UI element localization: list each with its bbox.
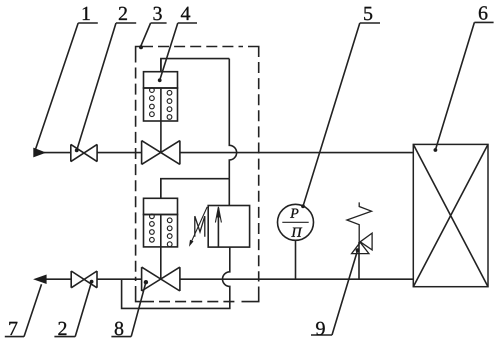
heat exchanger box (label 6) with X (413, 144, 488, 286)
node: outlet arrow (flow out) (33, 275, 47, 285)
solenoid S1 circles left column (150, 88, 155, 117)
valve V4 (label 8, bottom big): bowtie (142, 267, 180, 291)
wire: bottom main line valve2b to big valve 8 (97, 278, 142, 280)
wire: link from S2 top to control riser (T junction) (161, 179, 230, 199)
pressure gauge (label 5): circle (278, 204, 314, 240)
dashed enclosure box (label 3) (136, 47, 259, 302)
leader line label 6 with dot (435, 22, 493, 150)
label 2 (top) (119, 7, 127, 20)
label 2 (bottom) (58, 322, 66, 335)
label 7 (9, 322, 17, 335)
wire: link from S1 top to control riser (161, 59, 229, 72)
wire: top main line big valve to heat-exchanger box (180, 152, 413, 154)
regulator internal arrow (217, 208, 219, 247)
regulator adjustable spring (M zigzag) (195, 216, 205, 237)
regulator spring arrow (diagonal) (191, 207, 208, 243)
safety valve triangles (360, 233, 372, 250)
wire: top main line from inlet arrow to valve 2 (44, 152, 71, 154)
leader line label 5 with dot (303, 23, 380, 206)
valve V2 (label 2 bottom): bowtie (71, 271, 97, 288)
safety valve (label 9): spring zigzag (347, 202, 372, 242)
leader line label 7 (5, 284, 42, 336)
label 5 (364, 7, 372, 20)
wire: regulator drain with hop over bottom main line, loop back (122, 247, 230, 308)
label 3 (154, 7, 162, 20)
leader line label 2 (bottom) with dot (54, 282, 91, 337)
valve V3 (top big, inside dashed box): bowtie (142, 141, 180, 165)
wire: control riser upper segment with hop over top main line (229, 59, 236, 179)
gauge stem (295, 240, 297, 279)
leader line label 4 with dot (160, 23, 197, 80)
solenoid S1 body (144, 88, 178, 121)
wire: bottom main line big valve 8 to heat-exchanger box (180, 278, 413, 280)
leader line label 1 (36, 23, 98, 149)
label 6 (479, 6, 488, 19)
solenoid S1 circles right column (167, 90, 172, 119)
wire: control riser into regulator box (228, 179, 230, 206)
solenoid valve actuator S1 (label 4): cap (144, 72, 178, 88)
solenoid valve actuator S2 (label 8 assembly): cap (144, 198, 178, 214)
leader line label 3 with dot (141, 23, 167, 47)
leader line label 9 with dot (311, 250, 358, 335)
solenoid S2 body (144, 215, 178, 247)
solenoid S2 circles right column (167, 218, 172, 247)
label 4 (181, 7, 190, 20)
leader line label 2 (top) with dot (77, 23, 137, 150)
label 8 (115, 322, 123, 336)
solenoid S2 center divider / stem (160, 179, 162, 280)
gauge letter P (290, 209, 298, 218)
wire: top main line valve2 to big valve (97, 152, 142, 154)
solenoid S1 center divider / stem (160, 59, 162, 153)
node: inlet arrow (flow in) (33, 148, 46, 158)
leader line label 8 with dot (111, 282, 145, 336)
pressure regulator box (208, 206, 249, 248)
safety valve stem (358, 242, 360, 279)
gauge fraction bar (282, 221, 308, 223)
label 1 (83, 7, 90, 20)
gauge letter Pi (291, 228, 302, 237)
label 9 (316, 322, 325, 335)
valve V1 (label 2 top): bowtie (71, 144, 97, 161)
wire: bottom main line from outlet arrow to valve 2 (bottom) (46, 278, 72, 280)
solenoid S2 circles left column (150, 214, 155, 242)
